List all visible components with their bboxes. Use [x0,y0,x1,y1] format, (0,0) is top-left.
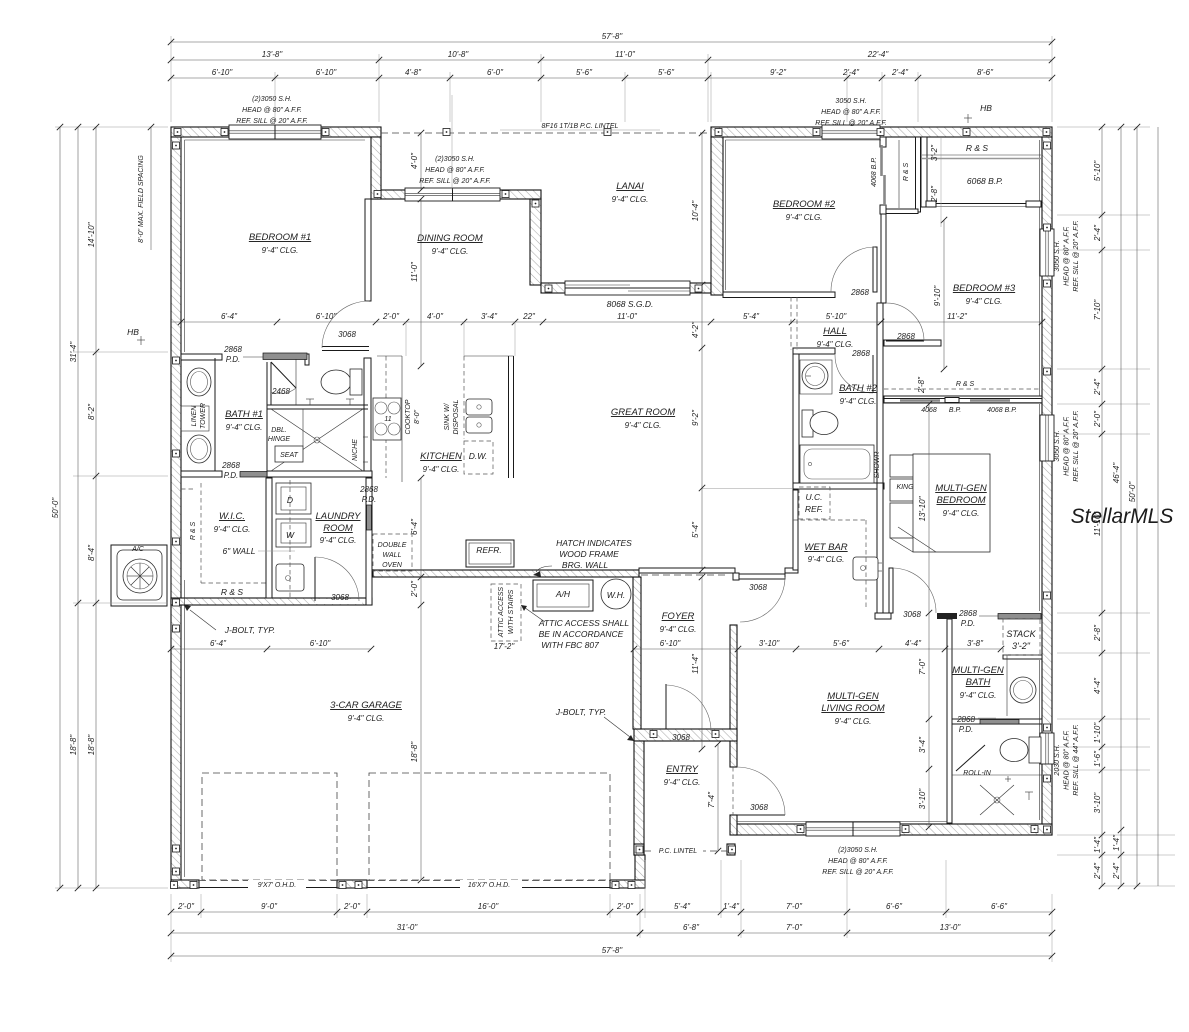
svg-text:WITH FBC 807: WITH FBC 807 [541,640,599,650]
svg-text:MULTI-GEN: MULTI-GEN [952,665,1004,676]
svg-text:9'-4" CLG.: 9'-4" CLG. [960,691,997,700]
svg-text:GREAT ROOM: GREAT ROOM [611,407,675,418]
svg-text:9'-10": 9'-10" [933,285,942,307]
svg-text:11'-0": 11'-0" [617,312,638,321]
svg-text:3'-10": 3'-10" [918,788,927,810]
svg-text:8068 S.G.D.: 8068 S.G.D. [607,299,654,309]
svg-text:22'-4": 22'-4" [867,50,890,59]
svg-text:P.D.: P.D. [224,471,239,480]
svg-text:R & S: R & S [190,522,197,541]
svg-text:NICHE: NICHE [352,439,359,461]
svg-text:4'-4": 4'-4" [1093,677,1102,694]
svg-text:LAUNDRY: LAUNDRY [315,511,361,522]
svg-text:3'-4": 3'-4" [918,736,927,753]
svg-text:6'-4": 6'-4" [210,639,227,648]
svg-text:REF. SILL @ 20" A.F.F.: REF. SILL @ 20" A.F.F. [419,178,491,185]
svg-text:5'-10": 5'-10" [1093,160,1102,182]
svg-text:3'-2": 3'-2" [1012,641,1031,651]
svg-text:2'-0": 2'-0" [410,580,419,598]
svg-text:9'-4" CLG.: 9'-4" CLG. [840,397,877,406]
svg-text:REFR.: REFR. [476,545,502,555]
svg-text:P.D.: P.D. [226,355,241,364]
svg-text:6'-4": 6'-4" [221,312,238,321]
svg-text:31'-4": 31'-4" [69,341,78,363]
svg-text:4068 B.P.: 4068 B.P. [871,157,878,187]
svg-text:W: W [286,530,295,540]
svg-text:FOYER: FOYER [662,611,695,622]
svg-text:2868: 2868 [958,609,977,618]
svg-text:3050 S.H.: 3050 S.H. [1054,430,1061,461]
svg-text:9'-4" CLG.: 9'-4" CLG. [625,421,662,430]
svg-text:BATH: BATH [966,677,991,688]
svg-text:DOUBLE: DOUBLE [378,542,407,549]
svg-text:3'-10": 3'-10" [1093,792,1102,814]
svg-text:16'-0": 16'-0" [478,902,500,911]
svg-text:7'-0": 7'-0" [786,902,803,911]
svg-text:A/C: A/C [131,546,145,553]
svg-text:11'-0": 11'-0" [615,50,636,59]
svg-text:9'-4" CLG.: 9'-4" CLG. [226,423,263,432]
svg-text:3'-4": 3'-4" [481,312,498,321]
svg-text:4068 B.P.: 4068 B.P. [987,407,1017,414]
svg-text:WITH STAIRS: WITH STAIRS [508,589,515,634]
svg-text:8'-0": 8'-0" [414,410,421,424]
svg-text:9'-4" CLG.: 9'-4" CLG. [966,297,1003,306]
svg-text:COOKTOP: COOKTOP [405,399,412,434]
svg-text:7'-10": 7'-10" [1093,299,1102,321]
svg-text:BE IN ACCORDANCE: BE IN ACCORDANCE [539,629,624,639]
svg-text:3'-10": 3'-10" [759,639,781,648]
svg-text:StellarMLS: StellarMLS [1071,505,1174,528]
svg-text:DISPOSAL: DISPOSAL [453,399,460,434]
svg-text:9'-4" CLG.: 9'-4" CLG. [612,195,649,204]
svg-text:R & S: R & S [966,143,989,153]
svg-text:WET BAR: WET BAR [804,542,847,553]
svg-text:R & S: R & S [903,163,910,182]
svg-text:2'-8": 2'-8" [917,376,926,394]
svg-text:2'-0": 2'-0" [616,902,634,911]
svg-text:2868: 2868 [851,349,870,358]
svg-text:18'-8": 18'-8" [410,741,419,763]
svg-text:14'-10": 14'-10" [87,221,96,247]
svg-text:3'-8": 3'-8" [967,639,984,648]
svg-text:LINEN: LINEN [191,405,198,427]
svg-text:4'-0": 4'-0" [410,152,419,169]
svg-text:9'-4" CLG.: 9'-4" CLG. [432,247,469,256]
svg-text:BRG. WALL: BRG. WALL [562,560,608,570]
svg-text:(2)3050 S.H.: (2)3050 S.H. [838,847,878,854]
svg-text:REF. SILL @ 44" A.F.F.: REF. SILL @ 44" A.F.F. [1073,724,1080,796]
svg-text:BEDROOM #1: BEDROOM #1 [249,232,311,243]
svg-text:KING: KING [896,484,914,491]
svg-text:9'-4" CLG.: 9'-4" CLG. [423,465,460,474]
svg-text:6'-6": 6'-6" [886,902,903,911]
svg-text:HEAD @ 80" A.F.F.: HEAD @ 80" A.F.F. [242,107,302,114]
svg-text:HEAD @ 80" A.F.F.: HEAD @ 80" A.F.F. [1064,226,1071,286]
svg-text:13'-8": 13'-8" [262,50,284,59]
svg-text:ROOM: ROOM [323,523,353,534]
svg-text:HEAD @ 80" A.F.F.: HEAD @ 80" A.F.F. [425,167,485,174]
svg-text:W.H.: W.H. [607,590,626,600]
svg-text:REF. SILL @ 20" A.F.F.: REF. SILL @ 20" A.F.F. [815,120,887,127]
svg-text:16'X7' O.H.D.: 16'X7' O.H.D. [468,882,510,889]
svg-text:57'-8": 57'-8" [602,32,624,41]
svg-text:18'-8": 18'-8" [87,734,96,756]
svg-text:3050 S.H.: 3050 S.H. [835,98,866,105]
svg-text:2868: 2868 [359,485,378,494]
svg-text:8'-6": 8'-6" [977,68,994,77]
svg-text:22": 22" [522,312,536,321]
svg-text:9'-2": 9'-2" [770,68,787,77]
svg-text:U.C.: U.C. [806,492,823,502]
svg-text:(2)3050 S.H.: (2)3050 S.H. [435,156,475,163]
svg-text:2030 S.H.: 2030 S.H. [1054,744,1061,776]
svg-text:D.W.: D.W. [469,451,488,461]
svg-text:5'-6": 5'-6" [833,639,850,648]
svg-text:2'-4": 2'-4" [842,68,860,77]
svg-text:ENTRY: ENTRY [666,764,699,775]
svg-text:2'-4": 2'-4" [891,68,909,77]
svg-text:A/H: A/H [555,589,571,599]
svg-text:W.I.C.: W.I.C. [219,511,245,522]
svg-text:REF.: REF. [805,504,823,514]
svg-text:3068: 3068 [338,330,356,339]
svg-text:5'-10": 5'-10" [826,312,848,321]
svg-text:R & S: R & S [221,587,244,597]
svg-text:BATH #1: BATH #1 [225,409,263,420]
svg-text:11: 11 [384,416,391,423]
svg-text:6068 B.P.: 6068 B.P. [967,176,1003,186]
svg-text:7'-0": 7'-0" [786,923,803,932]
svg-text:STACK: STACK [1006,629,1036,639]
svg-text:9'-4" CLG.: 9'-4" CLG. [786,213,823,222]
svg-text:6'-10": 6'-10" [212,68,234,77]
svg-text:5'-4": 5'-4" [743,312,760,321]
svg-text:SEAT: SEAT [280,452,298,459]
svg-text:MULTI-GEN: MULTI-GEN [935,483,987,494]
svg-text:3068: 3068 [903,610,921,619]
svg-text:2868: 2868 [896,332,915,341]
svg-text:J-BOLT, TYP.: J-BOLT, TYP. [224,625,275,635]
svg-text:ATTIC ACCESS SHALL: ATTIC ACCESS SHALL [538,618,629,628]
svg-text:6'-8": 6'-8" [683,923,700,932]
svg-text:50'-0": 50'-0" [51,497,60,519]
svg-text:HALL: HALL [823,326,847,337]
svg-text:9'-4" CLG.: 9'-4" CLG. [943,509,980,518]
svg-text:11'-2": 11'-2" [947,312,968,321]
svg-text:13'-10": 13'-10" [918,495,927,521]
svg-text:2'-4": 2'-4" [1093,224,1102,242]
svg-text:2'-0": 2'-0" [382,312,400,321]
svg-text:4'-2": 4'-2" [691,321,700,338]
svg-text:6'-10": 6'-10" [310,639,332,648]
svg-text:J-BOLT, TYP.: J-BOLT, TYP. [555,707,606,717]
svg-text:HB: HB [980,103,992,113]
svg-text:9'-4" CLG.: 9'-4" CLG. [835,717,872,726]
svg-text:2468: 2468 [271,387,290,396]
svg-text:2868: 2868 [956,715,975,724]
svg-text:DBL.: DBL. [271,427,287,434]
svg-text:R & S: R & S [956,381,975,388]
svg-text:6'-0": 6'-0" [487,68,504,77]
svg-text:9'-4" CLG.: 9'-4" CLG. [664,778,701,787]
svg-text:10'-4": 10'-4" [691,200,700,222]
svg-text:2868: 2868 [221,461,240,470]
svg-text:2'-8": 2'-8" [1093,624,1102,642]
svg-text:ATTIC ACCESS: ATTIC ACCESS [498,587,505,639]
svg-text:9'-4" CLG.: 9'-4" CLG. [808,555,845,564]
svg-text:1'-4": 1'-4" [1112,834,1121,851]
svg-text:P.D.: P.D. [961,619,976,628]
svg-text:8F16 1T/1B P.C. LINTEL: 8F16 1T/1B P.C. LINTEL [542,123,619,130]
svg-text:P.C. LINTEL: P.C. LINTEL [659,848,697,855]
svg-text:6'-10": 6'-10" [316,68,338,77]
svg-text:13'-0": 13'-0" [940,923,962,932]
svg-text:6'-6": 6'-6" [991,902,1008,911]
svg-text:1'-4": 1'-4" [723,902,740,911]
svg-text:8'-4": 8'-4" [87,544,96,561]
svg-text:17'-2": 17'-2" [494,642,516,651]
svg-text:P.D.: P.D. [959,725,974,734]
svg-text:3068: 3068 [749,583,767,592]
svg-text:SHOWR: SHOWR [874,452,881,479]
svg-text:5'-6": 5'-6" [576,68,593,77]
svg-text:2'-0": 2'-0" [343,902,361,911]
svg-text:3-CAR GARAGE: 3-CAR GARAGE [330,700,402,711]
svg-text:BEDROOM #3: BEDROOM #3 [953,283,1016,294]
svg-text:2868: 2868 [850,288,869,297]
svg-text:WOOD FRAME: WOOD FRAME [559,549,619,559]
svg-text:SINK W/: SINK W/ [444,403,451,431]
svg-text:46'-4": 46'-4" [1112,462,1121,484]
svg-text:4'-0": 4'-0" [427,312,444,321]
svg-text:LANAI: LANAI [616,181,644,192]
svg-text:2'-8": 2'-8" [930,185,939,203]
svg-text:REF. SILL @ 20" A.F.F.: REF. SILL @ 20" A.F.F. [822,869,894,876]
svg-text:9'-4" CLG.: 9'-4" CLG. [320,536,357,545]
svg-text:9'-4" CLG.: 9'-4" CLG. [262,246,299,255]
svg-text:11'-0": 11'-0" [410,261,419,282]
svg-text:B.P.: B.P. [949,407,961,414]
svg-text:1'-10": 1'-10" [1093,722,1102,744]
svg-text:6" WALL: 6" WALL [222,546,255,556]
svg-text:3068: 3068 [331,593,349,602]
svg-text:P.D.: P.D. [362,495,377,504]
svg-text:57'-8": 57'-8" [602,946,624,955]
svg-text:HEAD @ 80" A.F.F.: HEAD @ 80" A.F.F. [828,858,888,865]
svg-text:HINGE: HINGE [268,436,291,443]
svg-text:6'-4": 6'-4" [410,518,419,535]
svg-text:BEDROOM: BEDROOM [936,495,985,506]
svg-text:HATCH INDICATES: HATCH INDICATES [556,538,632,548]
svg-text:DINING ROOM: DINING ROOM [417,233,483,244]
svg-text:2'-0": 2'-0" [177,902,195,911]
svg-text:2'-4": 2'-4" [1093,862,1102,880]
svg-text:WALL: WALL [383,552,402,559]
svg-text:9'-4" CLG.: 9'-4" CLG. [214,525,251,534]
svg-text:2'-0": 2'-0" [1093,410,1102,428]
svg-text:MULTI-GEN: MULTI-GEN [827,691,879,702]
svg-text:4'-4": 4'-4" [905,639,922,648]
svg-text:10'-8": 10'-8" [448,50,470,59]
svg-text:TOWER: TOWER [200,403,207,429]
svg-text:KITCHEN: KITCHEN [420,451,462,462]
svg-text:2868: 2868 [223,345,242,354]
svg-text:HB: HB [127,327,139,337]
svg-text:REF. SILL @ 20" A.F.F.: REF. SILL @ 20" A.F.F. [1073,220,1080,292]
svg-text:5'-6": 5'-6" [658,68,675,77]
svg-text:3'-2": 3'-2" [930,144,939,161]
svg-text:HEAD @ 80" A.F.F.: HEAD @ 80" A.F.F. [821,109,881,116]
svg-text:1'-6": 1'-6" [1093,750,1102,767]
svg-text:8'-2": 8'-2" [87,403,96,420]
svg-text:3068: 3068 [672,733,690,742]
svg-text:7'-4": 7'-4" [707,791,716,808]
svg-text:11'-4": 11'-4" [691,653,700,674]
svg-text:OVEN: OVEN [382,562,403,569]
svg-text:7'-0": 7'-0" [918,658,927,675]
svg-text:1'-4": 1'-4" [1093,836,1102,853]
svg-text:9'-4" CLG.: 9'-4" CLG. [817,340,854,349]
svg-text:(2)3050 S.H.: (2)3050 S.H. [252,96,292,103]
svg-text:9'-4" CLG.: 9'-4" CLG. [660,625,697,634]
svg-text:6'-10": 6'-10" [660,639,682,648]
svg-text:3068: 3068 [750,803,768,812]
svg-text:31'-0": 31'-0" [397,923,419,932]
svg-text:9'-0": 9'-0" [261,902,278,911]
svg-text:9'-4" CLG.: 9'-4" CLG. [348,714,385,723]
svg-text:9'X7' O.H.D.: 9'X7' O.H.D. [258,882,297,889]
svg-text:BATH #2: BATH #2 [839,383,878,394]
svg-text:REF. SILL @ 20" A.F.F.: REF. SILL @ 20" A.F.F. [236,118,308,125]
svg-text:LIVING ROOM: LIVING ROOM [821,703,884,714]
svg-text:18'-8": 18'-8" [69,734,78,756]
svg-text:8'-0" MAX. FIELD SPACING: 8'-0" MAX. FIELD SPACING [138,155,145,243]
svg-text:3050 S.H.: 3050 S.H. [1054,240,1061,271]
svg-text:HEAD @ 80" A.F.F.: HEAD @ 80" A.F.F. [1064,730,1071,790]
svg-text:ROLL-IN: ROLL-IN [963,770,992,777]
svg-text:2'-4": 2'-4" [1112,862,1121,880]
svg-text:HEAD @ 80" A.F.F.: HEAD @ 80" A.F.F. [1064,416,1071,476]
svg-text:4068: 4068 [921,407,937,414]
svg-text:2'-4": 2'-4" [1093,378,1102,396]
svg-text:50'-0": 50'-0" [1128,481,1137,503]
svg-text:BEDROOM #2: BEDROOM #2 [773,199,836,210]
svg-text:9'-2": 9'-2" [691,409,700,426]
svg-text:D: D [287,495,293,505]
svg-text:5'-4": 5'-4" [691,521,700,538]
svg-text:6'-10": 6'-10" [316,312,338,321]
svg-text:5'-4": 5'-4" [674,902,691,911]
svg-text:REF. SILL @ 20" A.F.F.: REF. SILL @ 20" A.F.F. [1073,410,1080,482]
svg-text:4'-8": 4'-8" [405,68,422,77]
